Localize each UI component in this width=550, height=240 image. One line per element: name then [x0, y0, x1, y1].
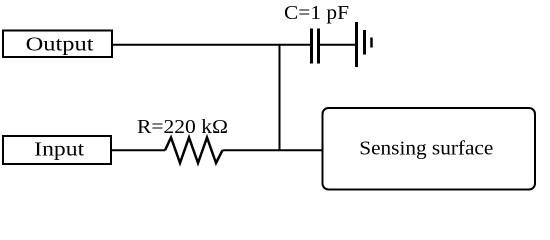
ground: [357, 22, 372, 67]
wire capacitor to ground: [320, 44, 356, 46]
resistor R (R=220 kOhm): [165, 138, 223, 164]
box Sensing surface: [323, 108, 536, 190]
capacitor C (C=1 pF): [312, 29, 319, 64]
box Output: [3, 31, 112, 58]
wire output to capacitor: [112, 44, 313, 46]
svg-text:Output: Output: [26, 34, 95, 56]
box Input: [3, 136, 111, 164]
wire input to resistor: [111, 149, 165, 151]
svg-text:Input: Input: [34, 139, 85, 161]
svg-text:Sensing surface: Sensing surface: [359, 138, 493, 160]
svg-text:R=220 kΩ: R=220 kΩ: [137, 116, 228, 138]
svg-text:C=1 pF: C=1 pF: [284, 2, 349, 24]
wire resistor to sensing surface: [223, 149, 323, 151]
wire vertical junction: [279, 45, 281, 151]
